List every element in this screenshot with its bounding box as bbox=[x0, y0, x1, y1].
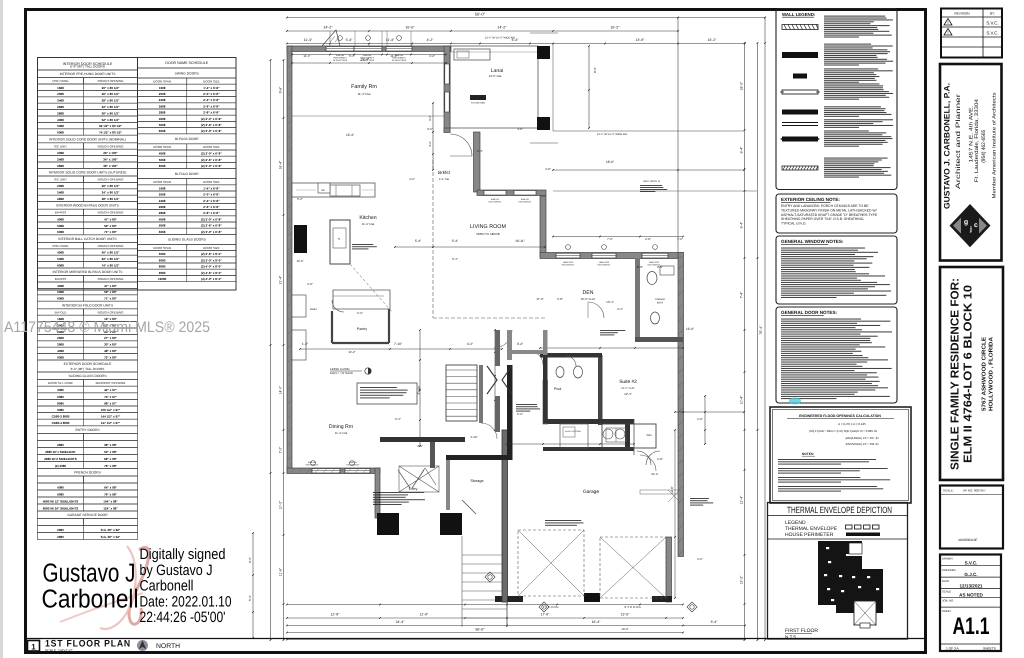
svg-text:2'-0" x 6'-8": 2'-0" x 6'-8" bbox=[203, 92, 220, 96]
svg-text:2'-0" x 6'-8": 2'-0" x 6'-8" bbox=[203, 193, 220, 197]
svg-text:(PROVIDED) FS = 258 JN: (PROVIDED) FS = 258 JN bbox=[846, 442, 879, 446]
svg-text:Brkfst: Brkfst bbox=[438, 170, 450, 175]
svg-text:2068: 2068 bbox=[57, 184, 64, 188]
svg-text:2'-4" x 6'-8": 2'-4" x 6'-8" bbox=[203, 199, 220, 203]
svg-text:38" x 80 1/2": 38" x 80 1/2" bbox=[102, 197, 120, 201]
svg-text:12/13/2021: 12/13/2021 bbox=[960, 584, 983, 589]
svg-text:10'-2": 10'-2" bbox=[279, 500, 283, 509]
svg-text:59" x 80": 59" x 80" bbox=[104, 290, 117, 294]
svg-text:DOOR SPAN: DOOR SPAN bbox=[153, 79, 171, 83]
svg-text:OPEN TO ABOVE: OPEN TO ABOVE bbox=[476, 232, 500, 236]
svg-text:A11775448 © Miami MLS® 2025: A11775448 © Miami MLS® 2025 bbox=[4, 319, 210, 336]
wall legend text short bbox=[824, 68, 878, 69]
dining room bbox=[329, 424, 353, 435]
svg-text:21'-4": 21'-4" bbox=[279, 275, 283, 284]
svg-text:8080: 8080 bbox=[159, 265, 166, 269]
wall legend symbol double bbox=[782, 123, 818, 126]
svg-text:PRE-HUNG: PRE-HUNG bbox=[52, 244, 69, 248]
wall legend text solid2 bbox=[824, 106, 881, 107]
svg-text:9'-6": 9'-6" bbox=[279, 86, 283, 94]
svg-text:10'-6": 10'-6" bbox=[296, 259, 303, 263]
svg-text:9080: 9080 bbox=[159, 271, 166, 275]
svg-text:2468: 2468 bbox=[57, 157, 64, 161]
svg-text:CD80-2 8080: CD80-2 8080 bbox=[52, 415, 70, 419]
svg-text:4068: 4068 bbox=[57, 349, 64, 353]
svg-text:DOOR SIZE: DOOR SIZE bbox=[203, 246, 220, 250]
svg-text:11'-8": 11'-8" bbox=[420, 613, 429, 617]
svg-text:2868: 2868 bbox=[57, 197, 64, 201]
svg-text:5068: 5068 bbox=[159, 123, 166, 127]
svg-text:Butler: Butler bbox=[310, 308, 317, 311]
svg-text:4080: 4080 bbox=[57, 485, 64, 489]
svg-text:(2) 2'-6" x 8'-0": (2) 2'-6" x 8'-0" bbox=[201, 252, 222, 256]
svg-text:14'-0": 14'-0" bbox=[279, 385, 283, 394]
svg-text:6068: 6068 bbox=[57, 230, 64, 234]
svg-text:7'-6": 7'-6" bbox=[677, 237, 683, 241]
svg-text:18'-11": 18'-11" bbox=[515, 239, 525, 243]
svg-text:4'-8": 4'-8" bbox=[545, 167, 551, 171]
svg-text:1668: 1668 bbox=[57, 86, 64, 90]
svg-text:(2) 3'-0" x 8'-0": (2) 3'-0" x 8'-0" bbox=[201, 258, 222, 262]
small interior dims suite bbox=[557, 265, 663, 396]
svg-text:(2) 2'-6" x 6'-8": (2) 2'-6" x 6'-8" bbox=[201, 224, 222, 228]
svg-text:13'-0": 13'-0" bbox=[621, 627, 628, 631]
wall legend text solid bbox=[824, 44, 871, 45]
wall legend text open bbox=[824, 83, 879, 84]
svg-text:G.J.C.: G.J.C. bbox=[964, 572, 977, 577]
svg-text:SINGLE FAMILY RESIDENCE FOR:: SINGLE FAMILY RESIDENCE FOR: bbox=[950, 278, 962, 470]
refrigerator bbox=[294, 225, 307, 253]
svg-text:(2) 2'-6" x 6'-8": (2) 2'-6" x 6'-8" bbox=[201, 158, 222, 162]
wall legend box bbox=[776, 9, 897, 190]
svg-text:2468: 2468 bbox=[159, 199, 166, 203]
gjc diamond logo bbox=[950, 204, 991, 247]
svg-text:2068: 2068 bbox=[159, 193, 166, 197]
suite2 / garage top walls bbox=[540, 353, 634, 451]
svg-text:17'-8": 17'-8" bbox=[541, 613, 550, 617]
svg-text:ASPHALT-SATURATED KRAFT GRADE: ASPHALT-SATURATED KRAFT GRADE "D" BREATH… bbox=[781, 213, 878, 217]
entry room bbox=[398, 470, 424, 491]
svg-text:4'-0": 4'-0" bbox=[697, 557, 703, 561]
svg-text:JOB. NO.: JOB. NO. bbox=[942, 599, 954, 603]
svg-text:ROUGH OPENING: ROUGH OPENING bbox=[98, 144, 125, 148]
svg-text:2468: 2468 bbox=[57, 191, 64, 195]
svg-text:ROUGH OPENING: ROUGH OPENING bbox=[98, 211, 125, 215]
svg-text:76" x 98": 76" x 98" bbox=[104, 464, 117, 468]
svg-text:SLIDING GLASS DOORS: SLIDING GLASS DOORS bbox=[168, 238, 207, 242]
bottom title strip bbox=[26, 639, 925, 653]
svg-text:14'-2": 14'-2" bbox=[323, 26, 333, 30]
svg-text:2868: 2868 bbox=[159, 111, 166, 115]
svg-text:16'-4": 16'-4" bbox=[592, 620, 601, 624]
scale box bbox=[940, 486, 1003, 549]
storage room bbox=[446, 460, 484, 514]
wall legend text hatch bbox=[824, 16, 885, 17]
svg-text:16'-4": 16'-4" bbox=[279, 160, 283, 169]
svg-text:11'-6": 11'-6" bbox=[279, 567, 283, 576]
svg-text:59" x 80": 59" x 80" bbox=[104, 224, 117, 228]
svg-text:DATE: DATE bbox=[942, 579, 949, 583]
porch left dim line bbox=[248, 532, 254, 639]
svg-text:12080: 12080 bbox=[158, 277, 167, 281]
svg-text:16'-0": 16'-0" bbox=[405, 26, 415, 30]
svg-text:30" x 80": 30" x 80" bbox=[104, 343, 117, 347]
top dimension lines bbox=[286, 12, 766, 45]
svg-text:(2) 2'-0" x 6'-8": (2) 2'-0" x 6'-8" bbox=[201, 152, 222, 156]
svg-text:27" x 80": 27" x 80" bbox=[104, 336, 117, 340]
svg-text:BY:: BY: bbox=[990, 12, 995, 16]
left page edge shade bbox=[0, 0, 3, 658]
cyan highlight mark bbox=[789, 398, 801, 405]
svg-text:2880: 2880 bbox=[57, 443, 64, 447]
svg-text:16'-2": 16'-2" bbox=[708, 38, 717, 42]
svg-text:Carbonell: Carbonell bbox=[140, 578, 194, 595]
svg-text:42" x 97": 42" x 97" bbox=[104, 388, 117, 392]
svg-text:9'-6": 9'-6" bbox=[248, 557, 252, 563]
entry column right bbox=[440, 513, 462, 535]
svg-text:BI-PASS: BI-PASS bbox=[55, 211, 67, 215]
project title box bbox=[940, 267, 1003, 480]
svg-text:6068: 6068 bbox=[159, 164, 166, 168]
pantry bbox=[332, 309, 389, 343]
svg-text:2'-8": 2'-8" bbox=[307, 282, 313, 286]
svg-text:6'-4": 6'-4" bbox=[740, 221, 744, 229]
svg-text:64" x 98": 64" x 98" bbox=[104, 485, 117, 489]
svg-text:1'-4" x 6'-8": 1'-4" x 6'-8" bbox=[203, 86, 220, 90]
svg-text:5'-6": 5'-6" bbox=[248, 595, 252, 601]
hall walls around stairs bbox=[446, 365, 513, 460]
svg-text:HOLLYWOOD , FLORIDA: HOLLYWOOD , FLORIDA bbox=[989, 337, 995, 411]
wall legend symbol short bbox=[793, 74, 807, 79]
svg-text:1668: 1668 bbox=[159, 186, 166, 190]
svg-text:j: j bbox=[969, 225, 972, 233]
svg-text:17'-0": 17'-0" bbox=[536, 297, 543, 301]
svg-text:Dining Rm: Dining Rm bbox=[329, 424, 353, 430]
garage bottom wall bbox=[495, 593, 672, 602]
svg-text:6'-0": 6'-0" bbox=[357, 311, 363, 315]
wall legend symbol open bbox=[780, 90, 820, 94]
svg-text:2'-8": 2'-8" bbox=[637, 265, 643, 269]
brkfst-lanai door arc bbox=[450, 134, 472, 156]
exterior ceiling note box bbox=[776, 194, 897, 233]
svg-text:28" x 80 1/2": 28" x 80 1/2" bbox=[102, 99, 120, 103]
laundry counter suite2 bbox=[602, 424, 656, 448]
svg-text:W/ SHUTTERS: W/ SHUTTERS bbox=[333, 59, 348, 62]
svg-text:1'-4" x 6'-8": 1'-4" x 6'-8" bbox=[203, 186, 220, 190]
svg-text:12'-8": 12'-8" bbox=[331, 613, 340, 617]
svg-text:4068: 4068 bbox=[57, 251, 64, 255]
svg-text:5080: 5080 bbox=[159, 252, 166, 256]
lanai column dim ties bbox=[530, 33, 558, 143]
revision table bbox=[941, 9, 1002, 58]
svg-text:2'-6": 2'-6" bbox=[657, 265, 663, 269]
svg-text:INTERIOR SOLID CORE DOOR UNITS: INTERIOR SOLID CORE DOOR UNITS (SUTURED) bbox=[49, 171, 127, 175]
svg-text:4068: 4068 bbox=[57, 217, 64, 221]
svg-text:A = (L/H) x A = 0.125: A = (L/H) x A = 0.125 bbox=[838, 422, 866, 426]
living room right wall chain bbox=[540, 196, 546, 256]
svg-text:4'-2": 4'-2" bbox=[409, 177, 415, 181]
svg-text:2880 W/ 1 SIDELIGHT: 2880 W/ 1 SIDELIGHT bbox=[45, 450, 76, 454]
svg-text:GARAGE SERVICE DOOR: GARAGE SERVICE DOOR bbox=[67, 513, 108, 517]
svg-text:ELEV.= 7.8' NAVD: ELEV.= 7.8' NAVD bbox=[330, 371, 353, 375]
north arrow bbox=[137, 640, 148, 651]
svg-text:A1.1: A1.1 bbox=[953, 613, 990, 640]
svg-text:74" x 80 1/2": 74" x 80 1/2" bbox=[102, 263, 120, 267]
wall legend symbol solid2 bbox=[782, 110, 818, 115]
svg-text:56'-0": 56'-0" bbox=[475, 12, 486, 17]
svg-text:4068: 4068 bbox=[57, 284, 64, 288]
svg-text:2'-8" x 6'-8": 2'-8" x 6'-8" bbox=[203, 111, 220, 115]
svg-text:12'-4": 12'-4" bbox=[740, 495, 744, 504]
svg-text:13'-8": 13'-8" bbox=[636, 38, 645, 42]
svg-text:S.V.C.: S.V.C. bbox=[965, 561, 978, 566]
garage side dim bbox=[670, 429, 676, 599]
svg-text:2068: 2068 bbox=[57, 92, 64, 96]
plan note box 2 (bottom) bbox=[373, 492, 425, 505]
svg-text:2068: 2068 bbox=[159, 92, 166, 96]
wall legend text solid3 bbox=[824, 130, 869, 131]
svg-text:NORTH: NORTH bbox=[156, 643, 180, 650]
svg-text:18'-0": 18'-0" bbox=[606, 160, 614, 164]
svg-text:SWING DOORS: SWING DOORS bbox=[175, 71, 200, 75]
svg-text:S.V.C.: S.V.C. bbox=[986, 31, 998, 36]
svg-text:147 1/2" x 97": 147 1/2" x 97" bbox=[101, 421, 121, 425]
left exterior wall bbox=[287, 46, 292, 473]
family rm right wall with windows bbox=[444, 46, 450, 132]
svg-text:EXTERIOR CEILING NOTE:: EXTERIOR CEILING NOTE: bbox=[781, 197, 840, 202]
svg-text:18'-2": 18'-2" bbox=[740, 81, 744, 90]
svg-text:3'-4": 3'-4" bbox=[517, 342, 523, 346]
svg-text:5068: 5068 bbox=[57, 257, 64, 261]
svg-text:6080 W/ 24" SIDELIGHTS: 6080 W/ 24" SIDELIGHTS bbox=[43, 506, 79, 510]
svg-text:FUTURE BBQ: FUTURE BBQ bbox=[471, 102, 485, 105]
window center extension lines top bbox=[330, 31, 412, 46]
svg-text:2'-6" x 6'-8": 2'-6" x 6'-8" bbox=[203, 205, 220, 209]
svg-text:11'-4" Flat: 11'-4" Flat bbox=[362, 222, 375, 226]
wall legend symbol hatch2 bbox=[782, 166, 818, 170]
svg-text:8'-0" (96") TALL DOORS: 8'-0" (96") TALL DOORS bbox=[71, 367, 105, 371]
engineered flood openings calculation box bbox=[770, 407, 911, 503]
svg-text:Carbonell: Carbonell bbox=[42, 584, 139, 614]
svg-text:DOOR SLT. CODE: DOOR SLT. CODE bbox=[48, 381, 73, 385]
svg-text:HIGH IMPACT: HIGH IMPACT bbox=[519, 200, 533, 203]
svg-text:(2) 4'-6" x 8'-0": (2) 4'-6" x 8'-0" bbox=[201, 271, 222, 275]
svg-text:GENERAL WINDOW NOTES:: GENERAL WINDOW NOTES: bbox=[781, 239, 844, 244]
wall legend text double bbox=[824, 119, 893, 120]
svg-text:1: 1 bbox=[31, 643, 36, 652]
cabana bath bbox=[539, 258, 684, 349]
svg-text:5'-4": 5'-4" bbox=[452, 239, 458, 243]
svg-text:TEXTURED MASONRY FINISH ON MET: TEXTURED MASONRY FINISH ON METAL LATH BA… bbox=[781, 208, 877, 212]
svg-text:MASONRY OPENING: MASONRY OPENING bbox=[96, 381, 126, 385]
svg-text:(2) 2'-0" x 6'-8": (2) 2'-0" x 6'-8" bbox=[201, 117, 222, 121]
svg-text:CHECKED: CHECKED bbox=[942, 568, 956, 572]
svg-text:3'-1": 3'-1" bbox=[617, 307, 623, 311]
door diamond symbols bbox=[485, 572, 697, 612]
svg-text:Ft. Lauderdale, Florida, 33304: Ft. Lauderdale, Florida, 33304 bbox=[974, 99, 980, 182]
svg-text:FRENCH DOORS: FRENCH DOORS bbox=[74, 471, 102, 475]
svg-text:7'-4": 7'-4" bbox=[740, 291, 744, 299]
svg-text:SHEETS: SHEETS bbox=[983, 646, 996, 650]
svg-text:13'-2": 13'-2" bbox=[740, 575, 744, 584]
svg-text:2668: 2668 bbox=[57, 105, 64, 109]
svg-text:W/ SHUTTERS: W/ SHUTTERS bbox=[392, 59, 407, 62]
svg-text:(REQUIRED) FS = 207 JN: (REQUIRED) FS = 207 JN bbox=[845, 436, 878, 440]
svg-text:(2) 3'-0" x 6'-8": (2) 3'-0" x 6'-8" bbox=[201, 164, 222, 168]
svg-text:LIVING ROOM: LIVING ROOM bbox=[470, 224, 506, 230]
svg-text:W.I.C.: W.I.C. bbox=[651, 472, 659, 476]
kitchen counters bbox=[292, 183, 375, 197]
svg-text:6080: 6080 bbox=[57, 492, 64, 496]
svg-text:DOOR SPAN: DOOR SPAN bbox=[153, 145, 171, 149]
svg-text:Member American Institute of A: Member American Institute of Architects bbox=[991, 92, 997, 199]
nook window wall (brkfst south) bbox=[477, 190, 546, 203]
svg-text:ROUGH OPENING: ROUGH OPENING bbox=[98, 79, 125, 83]
svg-text:WALL LEGEND:: WALL LEGEND: bbox=[782, 12, 816, 17]
svg-text:9080: 9080 bbox=[57, 408, 64, 412]
svg-text:13'-6" W/ 16'-0" WIDE A/G: 13'-6" W/ 16'-0" WIDE A/G bbox=[597, 133, 627, 136]
svg-text:(4) 4'-0" x 8'-0": (4) 4'-0" x 8'-0" bbox=[201, 277, 222, 281]
svg-text:2'-8": 2'-8" bbox=[645, 237, 651, 241]
svg-text:BATH: BATH bbox=[657, 302, 663, 305]
brkfst label bbox=[438, 170, 450, 181]
living room dashed boundary bbox=[433, 160, 545, 318]
svg-text:13'-6" W/ 16'-0" WIDE A/G: 13'-6" W/ 16'-0" WIDE A/G bbox=[485, 37, 515, 40]
wall legend symbol hatch bbox=[782, 25, 819, 30]
svg-text:DOOR NAME SCHEDULE: DOOR NAME SCHEDULE bbox=[165, 61, 208, 65]
svg-text:AP NO. 0007957: AP NO. 0007957 bbox=[963, 489, 986, 493]
svg-text:26" x 80 1/2": 26" x 80 1/2" bbox=[102, 184, 120, 188]
svg-text:DEN: DEN bbox=[583, 290, 594, 296]
wall legend symbol solid3 bbox=[780, 137, 820, 142]
svg-text:DOOR SIZE: DOOR SIZE bbox=[203, 180, 220, 184]
butler appliance bbox=[293, 300, 305, 310]
svg-text:5'-8": 5'-8" bbox=[557, 297, 563, 301]
svg-text:PRE-HUNG: PRE-HUNG bbox=[52, 79, 69, 83]
thermal mini floor plan bbox=[818, 541, 883, 628]
svg-text:BI-PASS: BI-PASS bbox=[55, 277, 67, 281]
svg-text:6068: 6068 bbox=[57, 263, 64, 267]
svg-text:76" x 98": 76" x 98" bbox=[104, 492, 117, 496]
svg-text:9' x 8' O.H.D.: 9' x 8' O.H.D. bbox=[543, 605, 560, 609]
svg-text:HOUSE PERIMETER: HOUSE PERIMETER bbox=[785, 532, 834, 538]
svg-text:CD80-4 8080: CD80-4 8080 bbox=[52, 421, 70, 425]
svg-text:26" x 80 1/2": 26" x 80 1/2" bbox=[102, 92, 120, 96]
svg-text:S/C UNIT: S/C UNIT bbox=[54, 144, 67, 148]
window tag circles bbox=[311, 36, 658, 466]
svg-text:11'-4": 11'-4" bbox=[304, 38, 313, 42]
svg-text:Kitchen: Kitchen bbox=[359, 215, 376, 221]
brkfst right wall (below lanai) bbox=[444, 128, 480, 192]
svg-text:5'-2": 5'-2" bbox=[297, 197, 303, 201]
svg-text:5767 ASHWOOD CIRCLE: 5767 ASHWOOD CIRCLE bbox=[982, 337, 988, 411]
svg-text:6'-4": 6'-4" bbox=[477, 149, 483, 153]
svg-text:EXTERIOR DOOR SCHEDULE: EXTERIOR DOOR SCHEDULE bbox=[64, 362, 113, 366]
brkfst left vertical dim bbox=[428, 102, 434, 171]
entry door X pattern bbox=[399, 466, 439, 492]
suite2 bedroom details bbox=[634, 419, 680, 502]
svg-text:4'-2": 4'-2" bbox=[427, 38, 435, 42]
den top exterior wall bbox=[540, 253, 683, 267]
door swing arcs center bbox=[414, 330, 543, 485]
entry-foyer wall bbox=[380, 437, 465, 468]
kitchen island bbox=[330, 220, 350, 264]
svg-text:62" x 80 1/2": 62" x 80 1/2" bbox=[102, 257, 120, 261]
svg-text:2868: 2868 bbox=[57, 164, 64, 168]
svg-text:INTERIOR BI-FOLD DOOR UNITS: INTERIOR BI-FOLD DOOR UNITS bbox=[62, 303, 114, 307]
future bbq counter bbox=[454, 49, 490, 105]
kitchen labels bbox=[352, 215, 377, 249]
svg-text:104" x 98": 104" x 98" bbox=[103, 499, 118, 503]
svg-text:14'-2": 14'-2" bbox=[348, 350, 355, 354]
lanai dim texts bbox=[485, 37, 757, 193]
svg-text:2668: 2668 bbox=[57, 336, 64, 340]
svg-text:16'-2": 16'-2" bbox=[610, 26, 620, 30]
wall legend symbol solid bbox=[782, 52, 818, 58]
svg-text:48" x 80": 48" x 80" bbox=[104, 349, 117, 353]
suite2 labels bbox=[603, 379, 652, 439]
svg-text:72" x 80": 72" x 80" bbox=[104, 355, 117, 359]
svg-text:5068: 5068 bbox=[159, 224, 166, 228]
svg-text:(2) 3'-0" x 6'-8": (2) 3'-0" x 6'-8" bbox=[201, 230, 222, 234]
svg-text:5'-4": 5'-4" bbox=[452, 257, 458, 261]
svg-text:AS NOTED: AS NOTED bbox=[959, 593, 983, 598]
plan note box 1 bbox=[357, 383, 417, 404]
svg-text:98" x 97": 98" x 97" bbox=[104, 401, 117, 405]
svg-text:10'-0" FLAT: 10'-0" FLAT bbox=[581, 297, 596, 301]
foyer stairs bbox=[417, 365, 477, 421]
svg-text:2868: 2868 bbox=[57, 111, 64, 115]
svg-text:2'-6" x 6'-8": 2'-6" x 6'-8" bbox=[203, 104, 220, 108]
svg-text:DOOR SIZE: DOOR SIZE bbox=[203, 145, 220, 149]
svg-text:5'-4": 5'-4" bbox=[346, 38, 354, 42]
svg-text:74 1/2" x 80 1/2": 74 1/2" x 80 1/2" bbox=[99, 131, 122, 135]
svg-text:HD: HD bbox=[321, 189, 325, 192]
svg-text:6068: 6068 bbox=[159, 129, 166, 133]
interior dim line y63 bbox=[291, 58, 447, 64]
dining bottom wall bbox=[287, 468, 380, 474]
svg-text:5068: 5068 bbox=[57, 224, 64, 228]
family rm ceiling break line bbox=[292, 115, 444, 117]
svg-text:9'-0": 9'-0" bbox=[428, 115, 432, 121]
digital signature text bbox=[140, 546, 232, 626]
svg-text:5068: 5068 bbox=[57, 290, 64, 294]
svg-text:10'-0" FLAT: 10'-0" FLAT bbox=[621, 387, 635, 390]
wall legend text hatch2 bbox=[824, 158, 888, 159]
general window notes box bbox=[776, 236, 897, 304]
svg-text:2468: 2468 bbox=[57, 99, 64, 103]
svg-text:2'-4" x 6'-8": 2'-4" x 6'-8" bbox=[203, 98, 220, 102]
svg-text:2880 W/ 2 SIDELIGHTS: 2880 W/ 2 SIDELIGHTS bbox=[44, 457, 77, 461]
svg-text:Digitally signed: Digitally signed bbox=[140, 546, 226, 563]
svg-text:36" x 80 1/2": 36" x 80 1/2" bbox=[102, 111, 120, 115]
svg-text:DRAWN: DRAWN bbox=[942, 557, 952, 561]
svg-text:12'-4": 12'-4" bbox=[624, 392, 632, 396]
svg-text:W/D: W/D bbox=[646, 434, 651, 437]
svg-text:13'-4": 13'-4" bbox=[606, 300, 614, 304]
right exterior wall bbox=[678, 253, 684, 557]
svg-text:2868: 2868 bbox=[159, 211, 166, 215]
svg-text:Suite #2: Suite #2 bbox=[619, 379, 637, 385]
svg-text:4'-8": 4'-8" bbox=[517, 127, 523, 131]
entry steps bbox=[462, 536, 507, 627]
svg-text:INTERIOR BALL CATCH DOOR UNITS: INTERIOR BALL CATCH DOOR UNITS bbox=[58, 237, 117, 241]
svg-text:1 OF 3 A: 1 OF 3 A bbox=[946, 646, 959, 650]
vertical ref line x553 bbox=[552, 44, 554, 132]
svg-text:74" x 97": 74" x 97" bbox=[104, 395, 117, 399]
svg-text:8'-0": 8'-0" bbox=[593, 67, 597, 73]
bottom dimension lines bbox=[286, 604, 746, 641]
